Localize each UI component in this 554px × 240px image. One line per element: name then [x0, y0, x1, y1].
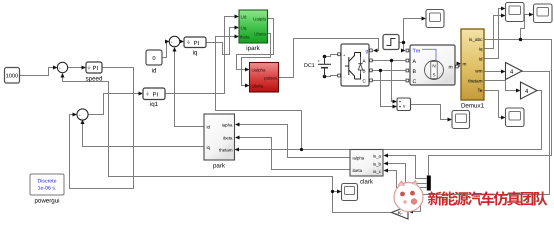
wire park iq to sum2 feedback	[83, 124, 205, 147]
sum S1 (speed error)	[57, 62, 67, 73]
wire machine m to Demux1	[458, 64, 460, 67]
subsystem ipark	[239, 10, 268, 52]
svg-text:B: B	[363, 68, 366, 73]
wire step junction	[399, 42, 404, 44]
wire tap B to voltage meter	[381, 71, 394, 107]
PI controller iq	[184, 37, 206, 57]
wire park id to sum3 feedback	[175, 51, 205, 127]
svg-text:DC1: DC1	[304, 63, 315, 69]
inverter bridge (universal bridge)	[338, 44, 373, 86]
scope6 (torque scope)	[426, 10, 444, 28]
wire 1000 to sum1	[20, 68, 54, 76]
node -K- output to scope4	[331, 190, 334, 193]
svg-text:pulses: pulses	[264, 76, 277, 81]
wire gain1 to -K-	[412, 72, 550, 212]
svg-text:iq1: iq1	[150, 101, 159, 108]
scope4 (speed scope)	[342, 184, 358, 201]
svg-text:m: m	[463, 62, 467, 67]
svg-text:Ud: Ud	[241, 15, 247, 20]
svg-text:iapha: iapha	[222, 123, 233, 128]
PMSM machine	[406, 45, 458, 85]
wire sum1 to PI speed	[68, 67, 83, 69]
wire sum2 to PI iq1	[88, 94, 140, 115]
svg-text:id: id	[479, 57, 483, 62]
watermark logo	[394, 181, 423, 212]
inverter left port minus	[338, 74, 341, 77]
gain G1 value 4	[506, 63, 523, 80]
svg-text:speed: speed	[86, 76, 103, 83]
svg-text:clark: clark	[360, 179, 374, 186]
svg-text:powergui: powergui	[34, 198, 59, 205]
svg-text:Tm: Tm	[413, 49, 421, 55]
svg-text:is_a: is_a	[373, 154, 382, 159]
machine port A	[406, 59, 409, 62]
subsystem svpwm (pulses)	[250, 63, 279, 93]
node battery minus	[323, 75, 327, 79]
inverter port g stub	[370, 49, 373, 52]
wire Te to scope3	[484, 91, 502, 118]
sum S2 (iq error)	[77, 109, 88, 121]
node tap phase A	[390, 59, 393, 62]
Demux1 (bus selector)	[461, 29, 485, 110]
wire current demux to clark is_c	[387, 171, 427, 188]
svg-text:Ualpha: Ualpha	[252, 68, 266, 73]
machine port m	[456, 65, 459, 68]
svg-text:A: A	[413, 59, 417, 65]
svg-text:Te: Te	[478, 88, 483, 93]
wire thetam branch up to ipark theta	[216, 37, 302, 150]
wire PI iq to ipark Uq	[206, 28, 236, 55]
svg-text:ibeta: ibeta	[223, 136, 233, 141]
scope2 (is_abc scope)	[534, 4, 553, 23]
svg-text:ibeta: ibeta	[353, 168, 363, 173]
svg-text:C: C	[413, 79, 417, 85]
wire tap A to voltage meter	[392, 61, 394, 102]
inverter port B	[370, 69, 373, 72]
node battery plus	[323, 55, 327, 59]
svg-text:1e-06 s.: 1e-06 s.	[38, 186, 57, 192]
wire -K- branch to scope4	[333, 191, 338, 193]
svg-text:is_b: is_b	[373, 162, 382, 167]
IGBT glyph	[345, 53, 361, 80]
svg-text:park: park	[213, 163, 226, 170]
wire id to scope1	[484, 9, 502, 59]
node thetam junction	[300, 148, 303, 151]
wire arrowheads (destination markers for the wires above, same order)	[53, 7, 534, 214]
node is_abc junction	[519, 38, 522, 41]
DC source DC1	[304, 57, 331, 77]
junction node dots (one comment per node below)	[300, 38, 522, 193]
step source Tm	[383, 35, 399, 50]
svg-text:wm: wm	[475, 69, 482, 74]
svg-text:thetam: thetam	[468, 79, 482, 84]
machine Tm blue wire	[422, 49, 436, 60]
machine port C	[406, 79, 409, 82]
node tap phase B	[379, 69, 382, 72]
wire voltage meter to scope5	[411, 105, 449, 120]
svg-text:PI: PI	[153, 92, 159, 99]
scope5 (voltage scope)	[452, 111, 470, 129]
wire wm to gain1	[484, 71, 502, 73]
svg-text:ipark: ipark	[246, 45, 260, 52]
PI controller speed	[86, 62, 103, 83]
scope3 (Te scope)	[506, 108, 525, 127]
watermark text	[428, 191, 548, 205]
inverter port C	[370, 79, 373, 82]
svg-text:is_abc: is_abc	[469, 37, 483, 42]
wire DC1 minus to inverter	[325, 76, 338, 77]
wire clark ialpha to park	[239, 125, 351, 158]
wire ipark Ualpha to svpwm	[237, 19, 274, 70]
wire const 0 to sum3	[162, 42, 167, 58]
wire PI iq1 to ipark Ud	[165, 17, 236, 94]
svg-text:iq: iq	[207, 145, 211, 150]
svg-text:+: +	[318, 59, 321, 64]
clark transform block (mirrored)	[350, 150, 383, 186]
constant 1000	[5, 68, 20, 84]
wire is_abc from Demux1 to current demux	[429, 40, 552, 176]
svg-text:g: g	[366, 50, 369, 55]
wire thetam long run from gain2 to park	[238, 91, 542, 150]
svg-text:id: id	[152, 68, 157, 75]
svg-text:thetam: thetam	[219, 148, 233, 153]
svg-text:PI: PI	[93, 65, 99, 72]
sum S3 (id error)	[169, 36, 180, 47]
svg-text:m: m	[449, 64, 453, 70]
svg-text:0: 0	[152, 55, 155, 62]
gain G2 value 4	[521, 82, 538, 99]
node step output junction	[402, 41, 405, 44]
constant 0 (id ref)	[146, 50, 162, 75]
svg-text:Uq: Uq	[241, 26, 247, 31]
wire svpwm pulses to inverter g	[279, 39, 379, 78]
svg-text:1000: 1000	[6, 74, 18, 80]
diode glyph	[358, 64, 362, 70]
current demux bar	[427, 176, 431, 191]
wire sum3 to PI iq	[179, 41, 182, 43]
wire step to machine Tm	[403, 43, 404, 51]
wire DC1 plus to inverter	[325, 55, 338, 57]
wire clark ibeta to park	[239, 138, 351, 170]
svg-text:Demux1: Demux1	[461, 103, 485, 110]
svg-text:ialpha: ialpha	[353, 156, 365, 161]
wire current demux to clark is_a	[387, 156, 427, 179]
svg-text:Discrete: Discrete	[37, 179, 56, 185]
svg-text:iq: iq	[193, 50, 198, 57]
gain -K- (rad/s to rpm, mirrored)	[392, 206, 409, 219]
machine port B	[406, 69, 409, 72]
wire thetam to gain2	[484, 81, 517, 91]
wire phase B	[373, 70, 406, 72]
svg-text:N: N	[432, 64, 435, 69]
wire current demux to clark is_b	[387, 164, 427, 184]
powergui	[30, 174, 64, 205]
svg-text:B: B	[413, 69, 417, 75]
wire step to scope6	[404, 19, 423, 43]
svg-text:-K-: -K-	[396, 211, 403, 217]
svg-text:iq: iq	[479, 47, 483, 52]
wire PI speed to sum2	[70, 68, 134, 189]
svg-text:is_c: is_c	[373, 169, 382, 174]
PI controller iq1	[143, 88, 165, 108]
svg-text:Ubeta: Ubeta	[252, 84, 264, 89]
wire iq to scope1	[484, 16, 502, 49]
svg-text:id: id	[207, 125, 211, 130]
machine port Tm	[406, 49, 409, 52]
inverter port A	[370, 59, 373, 62]
svg-text:Ualpfa: Ualpfa	[253, 17, 266, 22]
wire is_abc branch to scope2	[521, 15, 531, 40]
svg-text:Ubeta: Ubeta	[254, 32, 266, 37]
wire phase C	[373, 80, 406, 82]
wire ipark Ubeta to svpwm	[242, 34, 271, 86]
inverter left port plus	[338, 53, 341, 56]
wire speed feedback from -K- to sum1	[63, 77, 392, 213]
scope1 (id iq scope)	[506, 3, 525, 22]
park transform block (mirrored)	[204, 114, 235, 170]
svg-text:PI: PI	[194, 40, 200, 47]
svg-text:theta: theta	[240, 35, 250, 40]
wire phase A	[373, 60, 406, 62]
voltage measurement block	[397, 98, 411, 111]
svg-text:S: S	[432, 73, 435, 78]
